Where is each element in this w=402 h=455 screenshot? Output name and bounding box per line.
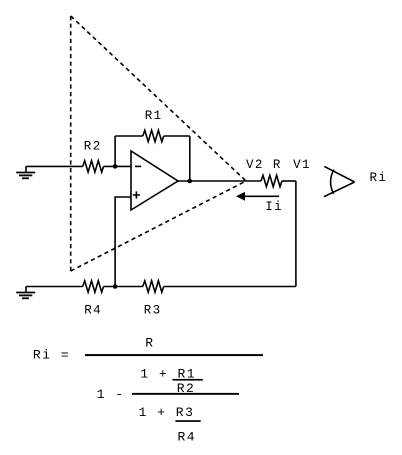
wire feedback left vertical — [114, 136, 116, 166]
svg-text:R: R — [145, 336, 154, 351]
svg-text:Ri =: Ri = — [33, 348, 70, 363]
wire op-amp output to R — [178, 180, 261, 182]
resistor R3 — [143, 281, 164, 292]
wire R4 to R3 — [104, 286, 143, 288]
resistor R4 — [83, 281, 104, 292]
junction node at op-amp output — [188, 179, 193, 184]
input impedance angle symbol — [324, 166, 355, 196]
svg-text:V2: V2 — [246, 158, 264, 172]
wire feedback top left — [115, 135, 143, 137]
dashed equivalent-amplifier triangle — [71, 16, 246, 271]
junction node at R4 / R3 — [113, 284, 118, 289]
ground (bottom left) — [16, 287, 35, 299]
wire R to right corner — [282, 180, 296, 182]
svg-text:1 -: 1 - — [97, 387, 125, 402]
svg-text:R4: R4 — [178, 430, 197, 445]
resistor R2 — [83, 161, 104, 172]
wire feedback top right — [164, 135, 190, 137]
wire R2 to op-amp inverting input — [104, 165, 131, 167]
resistor R1 — [143, 130, 164, 141]
current arrow Ii head — [236, 192, 245, 201]
svg-text:V1: V1 — [293, 158, 311, 172]
svg-text:R3: R3 — [144, 304, 162, 318]
wire ground to R4 — [26, 286, 83, 288]
wire feedback right vertical to output — [189, 136, 191, 181]
svg-text:R: R — [273, 158, 282, 172]
op-amp U1 triangle — [131, 151, 178, 210]
formula bar under R3 — [175, 420, 200, 422]
resistor R — [261, 175, 282, 186]
svg-text:Ii: Ii — [265, 200, 283, 214]
op-amp plus sign — [133, 191, 140, 198]
ground (top left) — [16, 166, 35, 178]
junction node at R2 / feedback — [113, 164, 118, 169]
wire ground to R2 — [26, 165, 83, 167]
wire R3 to right corner — [164, 286, 296, 288]
svg-text:1 + R3: 1 + R3 — [139, 405, 195, 420]
op-amp minus sign — [135, 165, 141, 167]
wire right vertical — [295, 181, 297, 287]
svg-text:R1: R1 — [145, 109, 163, 123]
formula main fraction bar — [85, 354, 263, 356]
current arrow Ii line — [244, 195, 279, 197]
wire noninverting input — [115, 197, 131, 287]
formula bar under R1 — [173, 379, 203, 381]
formula middle fraction bar — [132, 393, 239, 395]
svg-text:R4: R4 — [84, 304, 102, 318]
svg-text:R2: R2 — [84, 139, 102, 153]
svg-text:Ri: Ri — [370, 171, 388, 185]
